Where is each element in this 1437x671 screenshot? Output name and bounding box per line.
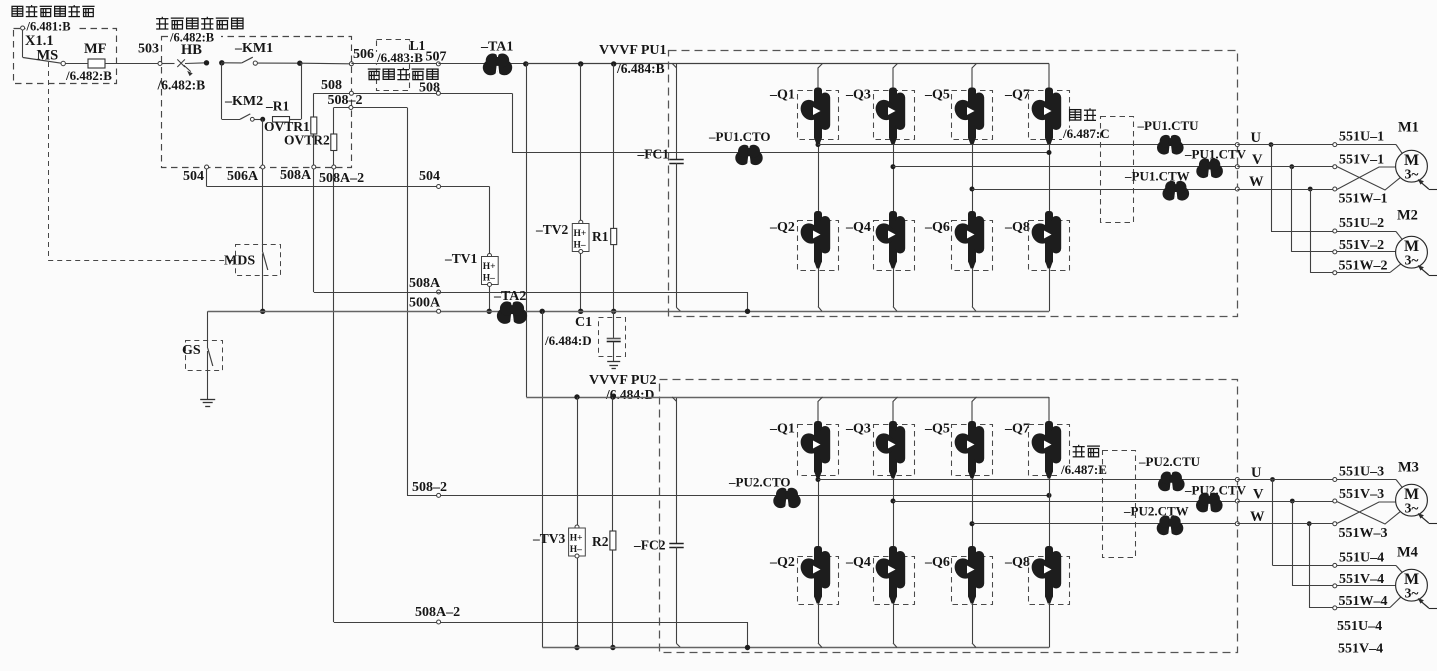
wire 508A-2 xyxy=(334,622,748,624)
wire V to 551V–1 xyxy=(1237,166,1333,168)
node B-feed on 500A bus xyxy=(540,309,545,314)
svg-text:R2: R2 xyxy=(592,534,609,549)
svg-text:3~: 3~ xyxy=(1405,167,1419,182)
svg-text:506A: 506A xyxy=(227,169,259,184)
svg-text:3~: 3~ xyxy=(1405,253,1419,268)
svg-text:M1: M1 xyxy=(1398,120,1419,136)
svg-text:VVVF PU1: VVVF PU1 xyxy=(599,43,667,58)
svg-text:–Q6: –Q6 xyxy=(924,555,950,570)
svg-text:508A: 508A xyxy=(280,168,312,183)
svg-text:–TA1: –TA1 xyxy=(480,40,513,55)
wire 551W–1 crossing up to motor M1 xyxy=(1337,167,1396,190)
node after TA1 xyxy=(523,61,528,66)
inverter PU1 leg drops from bus xyxy=(818,64,823,89)
svg-text:MDS: MDS xyxy=(224,254,255,269)
svg-text:H+: H+ xyxy=(483,262,496,272)
wire MF to HB box xyxy=(105,63,158,65)
svg-text:508A–2: 508A–2 xyxy=(319,171,364,186)
svg-text:–Q7: –Q7 xyxy=(1004,422,1030,437)
bus PU2 DC+ (from TA1 junction) xyxy=(526,397,1049,399)
svg-text:–KM1: –KM1 xyxy=(234,41,273,56)
svg-text:–Q2: –Q2 xyxy=(769,555,795,570)
phase line V (PU1) xyxy=(891,164,896,169)
ferrite ring box 磁环 /6.487:C xyxy=(1070,110,1081,120)
svg-text:–Q8: –Q8 xyxy=(1004,555,1030,570)
filter reactor L1 box 滤波电抗器 xyxy=(377,40,410,91)
wire U to 551U–3 xyxy=(1237,479,1333,481)
wire 506-507 through reactor xyxy=(351,63,438,65)
phase line V (PU2) xyxy=(891,499,896,504)
svg-text:–Q3: –Q3 xyxy=(845,88,871,103)
wire 506A riser inside box2 xyxy=(262,119,264,165)
svg-text:–PU2.CTW: –PU2.CTW xyxy=(1123,504,1189,519)
svg-text:V: V xyxy=(1252,152,1263,168)
svg-text:U: U xyxy=(1251,130,1262,146)
node CTO1 at Q7 leg xyxy=(1047,150,1052,155)
svg-text:/6.484:D: /6.484:D xyxy=(544,333,592,348)
svg-text:–Q7: –Q7 xyxy=(1004,88,1030,103)
title 高速断路器箱 xyxy=(156,17,168,29)
node R1 top xyxy=(611,61,616,66)
node R1 bottom / C1 junction xyxy=(611,309,616,314)
ground (GS earth) xyxy=(200,399,215,401)
node R2 top xyxy=(610,394,615,399)
svg-text:504: 504 xyxy=(419,169,440,184)
svg-text:–Q1: –Q1 xyxy=(769,422,795,437)
svg-text:508–2: 508–2 xyxy=(412,480,447,495)
svg-text:551V–3: 551V–3 xyxy=(1339,487,1384,502)
svg-text:/6.481:B: /6.481:B xyxy=(26,20,71,34)
wire 551V–3 crossing down to motor M3 xyxy=(1337,502,1400,525)
svg-text:–PU2.CTU: –PU2.CTU xyxy=(1138,454,1201,469)
svg-text:551V–4: 551V–4 xyxy=(1338,642,1383,657)
svg-text:V: V xyxy=(1253,487,1264,503)
disconnect switch MS xyxy=(22,30,24,58)
svg-text:506: 506 xyxy=(353,47,374,62)
svg-text:/6.482:B: /6.482:B xyxy=(65,68,112,83)
grounding switch GS xyxy=(207,311,209,340)
svg-text:–TA2: –TA2 xyxy=(493,289,526,304)
voltage transducer TV3 xyxy=(577,397,579,527)
terminal 508A-2 on box edge xyxy=(332,165,336,169)
svg-text:551W–3: 551W–3 xyxy=(1339,526,1388,541)
wire V to 551V–3 xyxy=(1237,501,1333,503)
node 508A joins PU1 bottom bus xyxy=(745,309,750,314)
enclosure 主隔离开关箱 (main isolation switch box) xyxy=(14,29,117,84)
reference /6.481:B xyxy=(26,21,78,33)
wire KM2 riser to bus xyxy=(301,63,303,119)
reference /6.483:B xyxy=(376,52,430,64)
wire 504 xyxy=(206,169,208,187)
node: 504 drop junction xyxy=(204,60,209,65)
svg-text:551W–4: 551W–4 xyxy=(1339,594,1388,609)
wire KM1 to 506 xyxy=(300,62,350,65)
svg-text:/6.482:B: /6.482:B xyxy=(157,78,206,93)
wire U feed to 551U–4 xyxy=(1272,480,1274,566)
svg-text:508A: 508A xyxy=(409,276,441,291)
phase line W (PU2) xyxy=(970,521,975,526)
svg-text:508: 508 xyxy=(321,78,342,93)
PU2 box edge terminals U V W xyxy=(1235,478,1239,482)
svg-text:–PU2.CTO: –PU2.CTO xyxy=(728,475,791,490)
wire U feed to 551U–2 xyxy=(1271,145,1273,231)
wire W feed to 551W–4 xyxy=(1309,524,1311,608)
svg-text:W: W xyxy=(1250,509,1265,525)
svg-text:551U–2: 551U–2 xyxy=(1339,216,1384,231)
wire MS to MF xyxy=(65,63,88,65)
svg-text:–Q5: –Q5 xyxy=(924,88,950,103)
phase line U (PU2) xyxy=(816,477,821,482)
title 滤波电抗器 xyxy=(368,69,381,80)
ferrite ring box 磁环 /6.487:E xyxy=(1073,445,1085,457)
svg-text:H–: H– xyxy=(483,274,495,284)
svg-text:R1: R1 xyxy=(592,229,609,244)
svg-text:551W–1: 551W–1 xyxy=(1339,192,1388,207)
node U feed M2 xyxy=(1269,142,1274,147)
svg-text:–Q6: –Q6 xyxy=(924,220,950,235)
node V feed M2 xyxy=(1289,164,1294,169)
svg-text:507: 507 xyxy=(426,50,447,65)
node TV3 top xyxy=(574,394,579,399)
svg-text:W: W xyxy=(1249,174,1264,190)
svg-text:508A–2: 508A–2 xyxy=(415,605,460,620)
wire W to 551W–3 xyxy=(1237,523,1333,525)
PU1 legs mid sections and bottom connections xyxy=(818,145,820,212)
node U feed M4 xyxy=(1270,477,1275,482)
wire 508 / CTO1 line to Q7 leg xyxy=(512,152,1049,154)
svg-text:GS: GS xyxy=(182,343,201,358)
wire 508 drop to FC1 level xyxy=(512,93,514,152)
breaker blade and reference arrow xyxy=(184,65,192,75)
svg-text:/6.487:C: /6.487:C xyxy=(1062,126,1110,141)
wire W feed to 551W–2 xyxy=(1310,189,1312,273)
node TV1 bottom on 500A bus xyxy=(487,309,492,314)
svg-text:–Q8: –Q8 xyxy=(1004,220,1030,235)
svg-text:500A: 500A xyxy=(409,296,441,311)
svg-text:551U–3: 551U–3 xyxy=(1339,465,1384,480)
wire 506A to MDS xyxy=(262,169,264,252)
wire 508-2 drop xyxy=(407,108,409,496)
node MDS bottom xyxy=(260,309,265,314)
svg-text:H+: H+ xyxy=(570,534,583,544)
node R2 bottom xyxy=(610,645,615,650)
svg-text:–Q3: –Q3 xyxy=(845,422,871,437)
svg-text:–R1: –R1 xyxy=(265,99,289,114)
svg-text:551U–4: 551U–4 xyxy=(1337,619,1382,634)
phase line U (PU1) xyxy=(816,142,821,147)
PU1 box edge terminals U V W xyxy=(1235,143,1239,147)
resistor R2 xyxy=(612,397,614,531)
node W feed M2 xyxy=(1308,187,1313,192)
reference /6.482:B (top) xyxy=(169,32,221,44)
resistor R1 (bus) xyxy=(613,64,615,229)
bus 500A / PU1 DC- bus xyxy=(208,311,1049,313)
svg-text:–Q1: –Q1 xyxy=(769,88,795,103)
wire 508-2 CTO2 line xyxy=(407,495,1050,497)
node TV2 top xyxy=(578,61,583,66)
svg-text:3~: 3~ xyxy=(1405,586,1419,601)
svg-text:HB: HB xyxy=(181,42,202,58)
svg-text:503: 503 xyxy=(138,42,159,57)
main bus TA1 to FC1 and into PU1 xyxy=(526,63,1049,65)
svg-text:–PU1.CTU: –PU1.CTU xyxy=(1137,118,1200,133)
node TV2 bottom xyxy=(578,309,583,314)
svg-text:–PU1.CTO: –PU1.CTO xyxy=(708,129,771,144)
svg-text:H–: H– xyxy=(574,241,586,251)
svg-text:551U–4: 551U–4 xyxy=(1339,550,1384,565)
svg-text:MS: MS xyxy=(37,48,59,64)
wire 551U–3 to motor M3 xyxy=(1337,479,1396,481)
terminal 508A on box edge xyxy=(312,165,316,169)
svg-text:–TV3: –TV3 xyxy=(532,531,566,546)
wire 508A xyxy=(314,292,748,294)
voltage transducer TV1 xyxy=(489,187,491,256)
wire 507 to TA1 xyxy=(438,63,483,65)
svg-text:–TV1: –TV1 xyxy=(444,251,478,266)
inverter PU2 leg drops from bus xyxy=(818,397,823,422)
node 508A-2 joins PU2 bottom bus xyxy=(745,645,750,650)
wire V feed to 551V–4 xyxy=(1292,501,1294,586)
enclosure 高速断路器箱 (high-speed circuit breaker box) xyxy=(162,37,352,168)
wire 500A junction down to PU2 bottom bus xyxy=(542,311,544,647)
svg-text:H–: H– xyxy=(570,545,582,555)
svg-text:–Q2: –Q2 xyxy=(769,220,795,235)
phase line W (PU1) xyxy=(970,187,975,192)
wires into motor M2 xyxy=(1337,231,1396,233)
svg-text:551U–1: 551U–1 xyxy=(1339,130,1384,145)
wire TA1 junction to PU2 bus (vertical) xyxy=(526,64,528,397)
svg-text:U: U xyxy=(1251,465,1262,481)
svg-text:C1: C1 xyxy=(575,315,592,330)
svg-text:508–2: 508–2 xyxy=(328,93,363,108)
svg-text:551W–2: 551W–2 xyxy=(1339,259,1388,274)
wires into motor M4 xyxy=(1337,565,1396,567)
node CTO2 at Q7 leg xyxy=(1047,493,1052,498)
svg-text:551V–1: 551V–1 xyxy=(1339,153,1384,168)
terminal circle 503 on box edge xyxy=(158,62,162,66)
node W feed M4 xyxy=(1307,521,1312,526)
wire 551U–1 to motor M1 xyxy=(1337,144,1396,146)
svg-text:M2: M2 xyxy=(1397,208,1418,224)
svg-text:–Q4: –Q4 xyxy=(845,220,871,235)
svg-text:VVVF PU2: VVVF PU2 xyxy=(589,373,657,388)
wire W to 551W–1 xyxy=(1237,189,1333,191)
svg-text:–Q4: –Q4 xyxy=(845,555,871,570)
title 主隔离开关箱 xyxy=(12,6,23,16)
svg-text:–FC2: –FC2 xyxy=(633,538,666,553)
svg-text:–TV2: –TV2 xyxy=(535,222,569,237)
svg-text:M3: M3 xyxy=(1398,460,1419,476)
contactor KM2 branch xyxy=(221,63,223,120)
svg-text:–KM2: –KM2 xyxy=(224,94,263,109)
voltage transducer TV2 xyxy=(580,64,582,223)
wire 551W–3 crossing up to motor M3 xyxy=(1337,502,1396,524)
mechanical linkage MS-MDS (dashed) xyxy=(48,62,50,261)
svg-text:551V–4: 551V–4 xyxy=(1339,572,1384,587)
PU2 legs mid sections and bottom connections xyxy=(818,478,820,546)
svg-text:M4: M4 xyxy=(1397,545,1418,561)
bus PU2 DC- bottom xyxy=(543,647,1050,649)
svg-text:OVTR2: OVTR2 xyxy=(284,133,330,148)
node V feed M4 xyxy=(1290,499,1295,504)
terminal circle on box top edge xyxy=(21,26,25,30)
svg-text:551V–2: 551V–2 xyxy=(1339,238,1384,253)
wire 551V–1 crossing down to motor M1 xyxy=(1337,167,1400,191)
svg-text:/6.487:E: /6.487:E xyxy=(1060,462,1107,477)
svg-text:–Q5: –Q5 xyxy=(924,422,950,437)
svg-text:504: 504 xyxy=(183,169,204,184)
wire U to 551U–1 xyxy=(1237,144,1333,146)
svg-text:/6.483:B: /6.483:B xyxy=(376,50,423,65)
svg-text:H+: H+ xyxy=(574,229,587,239)
svg-text:–FC1: –FC1 xyxy=(637,147,670,162)
node TV3 bottom xyxy=(574,645,579,650)
wire V feed to 551V–2 xyxy=(1291,167,1293,252)
svg-text:/6.484:B: /6.484:B xyxy=(616,61,665,76)
svg-text:3~: 3~ xyxy=(1405,501,1419,516)
svg-text:MF: MF xyxy=(84,41,107,57)
node: KM2/506A junction xyxy=(260,117,265,122)
